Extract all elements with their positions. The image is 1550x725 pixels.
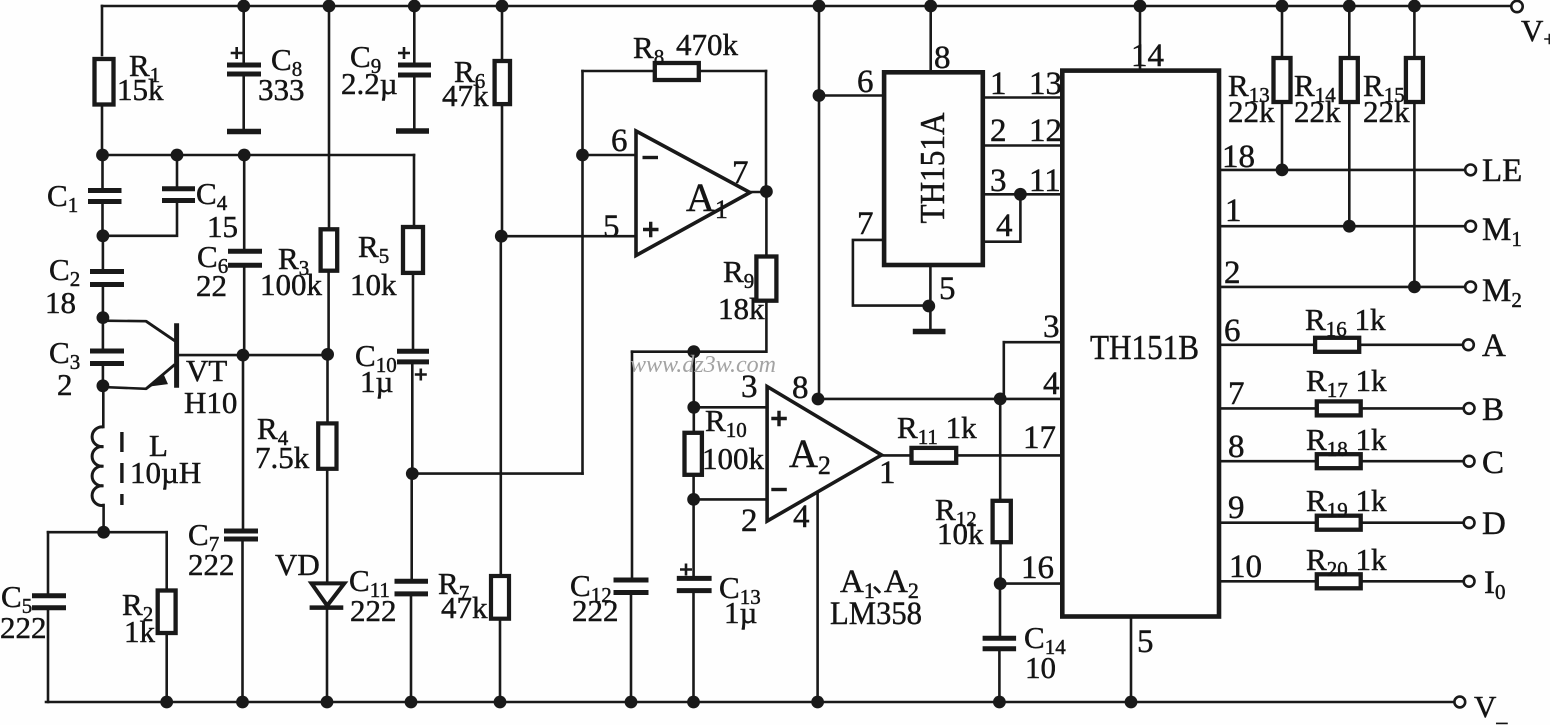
node: R14 bottom on pin1 wire: [1343, 220, 1356, 233]
resistor R16 body: [1315, 338, 1359, 352]
wire: C11 bottom lead to rail: [410, 595, 413, 702]
wire: C1 top lead: [101, 155, 104, 190]
wire: C5 top lead: [47, 532, 50, 595]
C8 polarity plus sign: [231, 47, 243, 59]
node: y=351.7 bus at R10 column: [687, 345, 700, 358]
svg-text:470k: 470k: [676, 27, 739, 62]
svg-text:2.2µ: 2.2µ: [341, 66, 398, 101]
wire: C14 top lead: [999, 584, 1002, 637]
wire: transistor emitter link: [103, 379, 160, 389]
svg-text:10k: 10k: [350, 267, 397, 302]
wire: C1 bottom lead: [101, 202, 104, 236]
wire: R8 right lead: [699, 70, 766, 73]
resistor R17 body: [1317, 401, 1361, 415]
terminal B: [1464, 403, 1475, 414]
svg-text:8: 8: [792, 370, 809, 406]
terminal V+: [1511, 1, 1522, 12]
wire: C5 bottom lead to rail: [47, 609, 50, 702]
svg-text:47k: 47k: [441, 590, 488, 625]
node: A2 pin3 at R10 top: [687, 401, 700, 414]
wire: TH151B pin9 wire to R19: [1221, 521, 1317, 524]
wire: R10 column top lead: [692, 352, 695, 408]
wire: A2 pin4 drop to V- rail: [816, 492, 819, 702]
wire: C4 top lead from y155 bus: [176, 155, 179, 188]
inductor L (4 arcs with dashed core): [92, 427, 122, 506]
svg-text:222: 222: [0, 610, 47, 645]
junction on V- rail at C12: [625, 696, 638, 709]
capacitor C4 plates: [162, 189, 195, 201]
resistor R6 body: [495, 61, 510, 104]
capacitor C6 plates: [228, 251, 262, 265]
svg-text:1: 1: [990, 66, 1007, 102]
node: y155 at A1 feedback column: [576, 149, 589, 162]
wire: R8 left lead: [583, 70, 655, 73]
svg-text:12: 12: [1029, 113, 1062, 149]
resistor R1 body: [95, 59, 114, 105]
C9 polarity plus sign: [398, 47, 410, 59]
junction on V- rail at C11: [405, 696, 418, 709]
resistor R18 body: [1317, 454, 1361, 468]
wire: R19 to D terminal: [1361, 521, 1464, 524]
svg-text:1k: 1k: [124, 614, 156, 649]
C13 polarity plus sign: [680, 564, 692, 576]
wire: TH151A pin7 loop to pin5: [853, 240, 929, 306]
wire: TH151B pin1 wire to M1 terminal: [1221, 225, 1465, 228]
svg-text:11: 11: [1029, 163, 1061, 199]
resistor R4 body: [318, 423, 336, 468]
wire: R2 top lead: [165, 532, 168, 590]
wire: R18 to C terminal: [1361, 460, 1464, 463]
wire: R13 top lead from rail: [1281, 6, 1284, 58]
wire: transistor base wire to R3/R4 node: [179, 354, 328, 357]
resistor R9 body: [756, 257, 776, 301]
svg-text:222: 222: [572, 593, 619, 628]
junction on V+ rail at C9: [408, 0, 421, 12]
wire: R15 top lead from rail: [1413, 6, 1416, 58]
wire: feedback column x=582.5 from R8 down across to C10 junction: [581, 71, 584, 474]
node: A1 pin5 at R6/R7: [495, 230, 508, 243]
op-amp U1 A1 triangle: [636, 131, 750, 256]
wire: C11 top lead: [410, 474, 413, 581]
junction on V+ rail at C8: [237, 0, 250, 12]
svg-text:10: 10: [1229, 549, 1262, 585]
wire: C13 top lead: [692, 499, 695, 577]
node: TH151A pin5/pin7 junction: [922, 300, 935, 313]
node: inductor to tank loop: [97, 526, 110, 539]
svg-text:5: 5: [939, 271, 956, 307]
svg-text:LE: LE: [1482, 153, 1522, 189]
node: A2 pin2 at R10 bottom: [687, 493, 700, 506]
junction on V- rail at C14: [993, 696, 1006, 709]
junction on V+ rail at R6: [496, 0, 509, 12]
wire: TH151A pin4 riser to pin3 wire: [985, 194, 1021, 241]
wire: TH151B pin18 wire to LE terminal: [1221, 169, 1465, 172]
resistor R5 body: [403, 227, 423, 273]
svg-text:6: 6: [857, 64, 874, 100]
wire: TH151B pin5 lead to V- rail: [1130, 619, 1133, 703]
svg-text:D: D: [1482, 506, 1506, 542]
wire: tank loop top wire: [48, 531, 167, 534]
junction on V+ rail at R3: [323, 0, 336, 12]
svg-text:10k: 10k: [937, 516, 984, 551]
wire: R20 to I0 terminal: [1361, 580, 1464, 583]
svg-text:47k: 47k: [442, 78, 489, 113]
wire: A1 pin5 (+) input wire: [501, 235, 636, 238]
svg-text:22k: 22k: [1363, 94, 1410, 129]
svg-text:www.dz3w.com: www.dz3w.com: [630, 352, 776, 378]
wire: TH151A pin2 to TH151B pin12: [985, 144, 1061, 147]
A2 plus input mark: [771, 411, 787, 427]
svg-text:18: 18: [45, 285, 76, 320]
node: C10 junction y=473.6: [406, 467, 419, 480]
wire: C8 top lead from rail: [242, 6, 245, 64]
IC U3 TH151A box: [884, 72, 983, 265]
svg-text:2: 2: [57, 367, 73, 402]
capacitor C8 negative bar: [227, 129, 261, 135]
wire: V+ drop column x=819 to A2 pin8: [818, 6, 821, 399]
svg-text:7.5k: 7.5k: [255, 440, 310, 475]
capacitor C9 plates (polarized): [398, 65, 431, 75]
svg-text:10µH: 10µH: [130, 455, 201, 490]
svg-text:4: 4: [996, 208, 1013, 244]
svg-text:222: 222: [188, 547, 235, 582]
svg-text:9: 9: [1228, 490, 1245, 526]
svg-text:1µ: 1µ: [724, 595, 757, 630]
svg-text:3: 3: [1043, 309, 1060, 345]
wire: TH151B pin16 wire: [1000, 582, 1060, 585]
svg-text:15k: 15k: [117, 72, 164, 107]
wire: R16 to A terminal: [1359, 343, 1463, 346]
wire: transistor collector link from left column: [103, 321, 175, 341]
capacitor C13 plates (polarized): [677, 578, 712, 590]
junction on V+ rail at R13: [1276, 0, 1289, 12]
wire: C7 top lead from base wire: [242, 355, 245, 529]
wire: R10 top lead: [692, 407, 695, 433]
junction on V- rail at VD: [321, 696, 334, 709]
svg-text:7: 7: [1228, 376, 1245, 412]
wire: TH151B pin14 supply lead: [1139, 6, 1142, 69]
capacitor C10 plates (polarized): [397, 351, 429, 362]
resistor R15 body: [1406, 58, 1423, 102]
capacitor C3 plates: [90, 351, 124, 364]
wire: C14 bottom lead to rail: [998, 650, 1001, 702]
wire: TH151B pin2 wire to M2 terminal: [1221, 286, 1465, 289]
wire: R4 bottom lead to diode VD: [326, 469, 329, 583]
terminal A: [1463, 339, 1474, 350]
svg-text:18: 18: [1222, 139, 1255, 175]
svg-text:22k: 22k: [1228, 94, 1275, 129]
wire: C9 lead to negative bar: [413, 76, 416, 129]
wire: C6 top lead from y155 bus: [243, 155, 246, 250]
wire: R15 bottom lead to pin2 wire: [1413, 102, 1416, 287]
svg-text:17: 17: [1023, 420, 1056, 456]
wire: R1 bottom lead to node wire: [101, 105, 104, 155]
junction on V- rail at R7: [494, 696, 507, 709]
resistor R14 body: [1341, 58, 1358, 102]
wire: V+ top rail: [102, 5, 1511, 8]
node: base wire at C6/C7: [237, 349, 250, 362]
svg-text:100k: 100k: [702, 441, 765, 476]
C10 polarity plus sign: [415, 369, 427, 381]
node: transistor emitter tap: [97, 379, 110, 392]
wire: R2 bottom lead to rail: [165, 633, 168, 702]
capacitor C2 plates: [90, 272, 124, 285]
wire: R5 bottom lead to C10: [412, 273, 415, 350]
wire: R14 top lead from rail: [1348, 6, 1351, 58]
wire: R3 bottom lead to base wire: [327, 271, 330, 355]
junction on V- rail at C7: [236, 696, 249, 709]
capacitor C7 plates: [224, 531, 258, 539]
resistor R13 body: [1274, 58, 1291, 102]
svg-text:LM358: LM358: [830, 596, 922, 632]
svg-text:2: 2: [741, 503, 758, 539]
svg-text:22: 22: [196, 268, 227, 303]
wire: bus y=351.7 between C12 column and R9: [632, 350, 766, 353]
svg-text:3: 3: [990, 163, 1007, 199]
svg-text:VD: VD: [275, 547, 320, 582]
svg-text:7: 7: [857, 206, 874, 242]
wire: R12 top lead from y=398.9 bus: [999, 399, 1002, 501]
wire: C7 bottom lead to rail: [241, 541, 244, 702]
svg-text:R11 1k: R11 1k: [897, 410, 977, 449]
wire: C4 bottom lead and corner to C1 node: [103, 202, 177, 236]
terminal C: [1464, 456, 1475, 467]
junction on V- rail at A2 pin4: [811, 696, 824, 709]
resistor R10 body: [685, 433, 702, 475]
wire: A1 pin6 (-) input wire: [583, 154, 637, 157]
wire: C10 bottom lead to junction: [411, 363, 414, 474]
node: y155 bus at C6/C8: [238, 149, 251, 162]
wire: R1 top lead from rail: [101, 6, 104, 55]
terminal I0: [1464, 576, 1475, 587]
junction on V+ rail at R14: [1343, 0, 1356, 12]
svg-text:333: 333: [258, 72, 305, 107]
resistor R11 body: [912, 448, 957, 463]
node: transistor collector-link tap: [97, 311, 110, 324]
wire: C3 top lead: [102, 318, 105, 350]
node A: y155 bus left end at C1: [96, 149, 109, 162]
resistor R7 body: [491, 576, 509, 619]
resistor R8 body: [655, 63, 699, 80]
node: A2 pin8 supply tap: [812, 393, 825, 406]
wire: R9 bottom lead: [765, 301, 768, 352]
svg-text:2: 2: [1224, 255, 1241, 291]
svg-text:1: 1: [1225, 193, 1242, 229]
wire: TH151B pin3-pin4 riser: [1002, 342, 1005, 399]
wire: TH151B pin7 wire to R17: [1221, 407, 1317, 410]
op-amp U2 A2 triangle: [767, 387, 881, 522]
wire: TH151A pin5 lead to ground: [929, 267, 932, 329]
wire: V- bottom rail: [46, 701, 1454, 704]
terminal V-: [1454, 697, 1465, 708]
capacitor C1 plates: [88, 191, 122, 202]
wire: R14 bottom lead to pin1 wire: [1348, 102, 1351, 226]
capacitor C12 plates: [614, 580, 649, 593]
PARTS_START: [95, 58, 1423, 633]
wire: C12 bottom lead to rail: [630, 594, 633, 702]
svg-text:5: 5: [1137, 624, 1154, 660]
wire: R7 top lead from pin5 node: [499, 236, 502, 576]
wire: R9 top lead: [765, 192, 768, 257]
junction on V+ rail at R15: [1408, 0, 1421, 12]
capacitor C8 plates (polarized): [227, 65, 261, 74]
svg-text:16: 16: [1021, 550, 1054, 586]
junction on V- rail at R2: [160, 696, 173, 709]
A2 minus input mark: [771, 488, 787, 491]
resistor R3 body: [321, 229, 338, 270]
node: R13 bottom on pin18 wire: [1276, 164, 1289, 177]
svg-text:1: 1: [879, 455, 896, 491]
terminal D: [1464, 517, 1475, 528]
node: y155 bus at C4: [171, 149, 184, 162]
A1 plus input mark: [643, 222, 659, 238]
IC U4 TH151B box: [1062, 71, 1219, 617]
wire: C12 top lead: [631, 352, 634, 579]
svg-text:VT: VT: [186, 353, 227, 388]
wire: C9 top lead from rail: [413, 6, 416, 64]
resistor R2 body: [158, 591, 176, 634]
junction on V+ rail at TH151B pin14: [1134, 0, 1147, 12]
svg-text:7: 7: [732, 155, 749, 191]
wire: R6 top lead from rail: [501, 6, 504, 61]
wire: R6 bottom lead to A1 pin5 node: [501, 104, 504, 236]
svg-text:A: A: [1482, 328, 1506, 364]
wire: C8 lead to negative bar: [242, 75, 245, 130]
junction on V+ rail at TH151A pin8: [924, 0, 937, 12]
diode VD: [310, 583, 345, 607]
svg-text:13: 13: [1029, 66, 1062, 102]
wire: TH151A pin1 to TH151B pin13: [985, 96, 1061, 99]
wire: TH151A pin3 to TH151B pin11: [985, 193, 1061, 196]
svg-text:5: 5: [603, 209, 620, 245]
wire: A1 output stub: [750, 191, 766, 194]
resistor R19 body: [1317, 516, 1361, 530]
node: TH151A pin6 at V+ drop column: [813, 89, 826, 102]
junction on V+ rail at x=819 drop: [813, 0, 826, 12]
node: R15 bottom on pin2 wire: [1408, 281, 1421, 294]
node: R12 bottom at pin16: [994, 577, 1007, 590]
wire: C2 top lead: [102, 236, 105, 271]
wire: R17 to B terminal: [1361, 407, 1464, 410]
node: R12 top at y=398.9 bus: [994, 393, 1007, 406]
svg-text:18k: 18k: [718, 291, 765, 326]
svg-text:TH151B: TH151B: [1090, 328, 1199, 367]
wire: A2 output to R11: [882, 454, 912, 457]
svg-text:TH151A: TH151A: [913, 112, 952, 224]
wire: TH151B pin6 wire to R16: [1221, 343, 1315, 346]
svg-text:2: 2: [990, 113, 1007, 149]
resistor R20 body: [1317, 574, 1361, 588]
node: base wire at R3/R4: [321, 348, 334, 361]
svg-text:8: 8: [934, 40, 951, 76]
junction on V- rail at TH151B pin5: [1125, 696, 1138, 709]
svg-text:100k: 100k: [260, 267, 323, 302]
capacitor C11 plates: [395, 581, 429, 594]
wire: TH151B pin10 wire to R20: [1221, 580, 1317, 583]
svg-text:4: 4: [793, 499, 810, 535]
wire: VD cathode lead to rail: [326, 609, 329, 702]
transistor VT (bar, collector link, emitter arrow): [146, 321, 177, 389]
svg-text:H10: H10: [184, 385, 237, 420]
svg-text:4: 4: [1043, 366, 1060, 402]
svg-text:8: 8: [1228, 429, 1245, 465]
wire: inductor bottom to tank node: [102, 505, 105, 532]
junction on V- rail at C13: [687, 696, 700, 709]
svg-text:C: C: [1482, 445, 1504, 481]
svg-text:1µ: 1µ: [360, 364, 393, 399]
wire: TH151B pin8 wire to R18: [1221, 460, 1317, 463]
ground symbol at TH151A pin5: [913, 329, 946, 335]
wire: R11 to TH151B pin17: [956, 454, 1060, 457]
capacitor C5 plates: [32, 596, 66, 608]
wire: node bus y=155 from R1 bottom to C9 column: [102, 154, 414, 157]
node: A1 output: [760, 185, 773, 198]
wire: C2 bottom lead to base node: [102, 285, 105, 317]
terminal LE: [1465, 165, 1476, 176]
wire: emitter node to inductor top: [102, 386, 105, 427]
resistor R12 body: [993, 501, 1011, 542]
node: C1/C2/C4 junction: [97, 229, 110, 242]
wire: R7 bottom lead to rail: [499, 619, 502, 702]
wire: junction wire y=473.6 toward op-amp input column: [412, 472, 582, 475]
terminal M2: [1465, 282, 1476, 293]
wire: TH151B pin3 stub: [1004, 341, 1061, 344]
wire: C6 bottom lead to base wire: [243, 266, 246, 355]
wire: y155 bus corner down to R5: [413, 155, 416, 227]
svg-text:10: 10: [1025, 650, 1056, 685]
wire: R12 bottom lead to pin16 node: [999, 542, 1002, 583]
wire: R4 top lead: [326, 354, 329, 423]
capacitor C9 negative bar: [396, 128, 429, 134]
svg-text:22k: 22k: [1294, 94, 1341, 129]
svg-text:B: B: [1482, 392, 1504, 428]
wire: A2 pin2 (-) input wire: [694, 498, 768, 501]
wire: C13 bottom lead to rail: [692, 592, 695, 702]
wire: A2 pin3 (+) input wire: [694, 406, 767, 409]
svg-text:222: 222: [350, 593, 397, 628]
wire: C3 bottom lead to emitter node: [102, 365, 105, 386]
svg-text:6: 6: [1224, 313, 1241, 349]
node: TH151A pin3/pin4 junction: [1014, 188, 1027, 201]
wire: R10 bottom lead: [692, 475, 695, 500]
wire: bus y=398.9 from A2 pin8 to TH151B pin4: [818, 398, 1060, 401]
wire: feedback drop to A1 output node: [765, 71, 768, 192]
wire: R13 bottom lead to pin18 wire: [1281, 102, 1284, 170]
wire: TH151A pin6 wire: [819, 94, 884, 97]
svg-text:6: 6: [611, 123, 628, 159]
A1 minus input mark: [643, 156, 659, 159]
wire: TH151A pin8 supply lead: [929, 6, 932, 70]
terminal M1: [1465, 221, 1476, 232]
capacitor C14 plates: [983, 638, 1017, 649]
svg-text:14: 14: [1131, 38, 1164, 74]
wire: R3 top lead from rail: [328, 6, 331, 229]
